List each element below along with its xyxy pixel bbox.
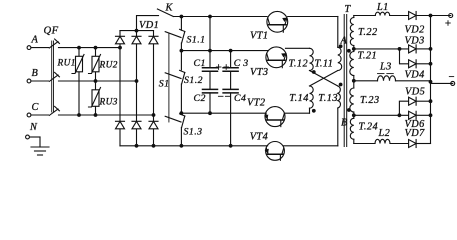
svg-text:RU2: RU2	[99, 61, 118, 71]
svg-text:T.14: T.14	[289, 93, 309, 104]
center tap wire with L3	[354, 80, 378, 82]
svg-text:T.11: T.11	[315, 58, 334, 69]
VD5 branch wire	[399, 101, 408, 115]
transistor VT3	[266, 47, 287, 68]
svg-text:VD4: VD4	[405, 70, 425, 81]
plus sign C1	[216, 65, 221, 70]
minus sign output	[449, 76, 453, 78]
capacitor C2	[203, 71, 218, 113]
svg-text:C1: C1	[194, 58, 206, 69]
polarity dot T.13	[339, 83, 343, 87]
bridge column 1 wire	[119, 31, 121, 146]
bridge column 2 wire	[136, 31, 138, 146]
inductor L2	[375, 139, 390, 143]
svg-text:C2: C2	[194, 93, 206, 104]
capacitor C1	[203, 17, 218, 72]
transistor VT2	[264, 107, 285, 127]
riser to node A	[337, 17, 339, 48]
transformer winding T.22	[350, 18, 353, 46]
right collector bus	[430, 16, 432, 144]
bridge diode top 2	[132, 36, 141, 44]
svg-text:N: N	[29, 122, 38, 133]
L3 core dashes	[378, 73, 394, 75]
transformer winding T.11	[338, 47, 342, 70]
VD4 branch wire	[400, 49, 409, 64]
svg-text:C 3: C 3	[234, 58, 249, 69]
VT4 wire right	[284, 145, 338, 147]
svg-text:S1.3: S1.3	[184, 127, 203, 138]
transformer winding T.14	[310, 86, 314, 108]
terminal N	[26, 135, 40, 147]
transistor VT4	[265, 142, 285, 161]
diode VD5	[409, 97, 431, 105]
polarity dot T.11	[339, 44, 343, 48]
diode VD6	[409, 111, 431, 119]
bottom dc bus	[120, 145, 268, 147]
bridge junction dots	[118, 29, 155, 148]
plus output terminal	[449, 14, 453, 18]
svg-text:L1: L1	[376, 2, 389, 13]
T.21 to center tap lead	[353, 76, 355, 81]
transistor VT1	[267, 11, 288, 32]
polarity dot T.12	[312, 70, 316, 74]
transformer winding T.24	[350, 118, 353, 139]
svg-text:RU3: RU3	[99, 98, 118, 108]
tap wire T.23/T.24	[354, 114, 409, 116]
tap wire T.22/T.21	[354, 48, 409, 50]
transformer winding T.21	[350, 52, 354, 76]
svg-text:C: C	[32, 102, 39, 113]
transformer winding T.12	[310, 48, 314, 70]
bridge column 3 wire	[153, 31, 155, 146]
svg-text:VT2: VT2	[247, 98, 266, 109]
terminal B	[27, 79, 48, 83]
svg-text:T.12: T.12	[289, 58, 309, 69]
S1 linkage bar	[168, 33, 170, 122]
inductor L1	[375, 12, 389, 15]
VT3 wire right to T.12	[286, 47, 310, 49]
minus sign C4	[225, 95, 230, 97]
breaker QF linkage	[52, 41, 54, 112]
top rail wire	[173, 16, 267, 18]
bridge diode top 3	[149, 36, 158, 44]
terminal A	[27, 46, 48, 50]
switch S1.1	[165, 17, 185, 70]
svg-text:VD1: VD1	[139, 20, 159, 31]
switch S1.3	[165, 114, 185, 146]
top output wire	[354, 15, 376, 17]
bus junction dots	[352, 14, 433, 118]
svg-text:RU1: RU1	[57, 59, 76, 69]
svg-text:T.21: T.21	[358, 51, 378, 62]
secondary polarity dots	[347, 49, 351, 112]
T.22 top lead	[353, 16, 355, 18]
minus output terminal	[451, 81, 455, 85]
switch K	[157, 9, 173, 17]
svg-text:VD3: VD3	[405, 36, 425, 47]
svg-text:VD2: VD2	[405, 25, 425, 36]
bridge diode bottom 1	[116, 121, 125, 129]
T.24 leads	[353, 115, 355, 143]
svg-text:VD5: VD5	[405, 87, 425, 98]
svg-text:VT4: VT4	[250, 132, 269, 143]
switch S1.2	[165, 70, 185, 113]
T.22-T.21 link	[353, 46, 355, 52]
diode VD3	[409, 45, 431, 53]
svg-text:L3: L3	[379, 62, 392, 73]
varistor RU3	[89, 81, 101, 115]
riser to node B	[337, 108, 339, 146]
svg-text:S1.2: S1.2	[184, 75, 203, 86]
breaker QF pole B	[49, 72, 136, 81]
transformer winding T.23	[350, 88, 354, 112]
svg-text:S1: S1	[159, 79, 170, 90]
diode VD4	[409, 60, 431, 68]
varistor RU2	[89, 48, 101, 81]
svg-text:A: A	[31, 35, 39, 46]
bridge riser to K	[137, 16, 159, 31]
VT1 collector wire right	[288, 16, 338, 18]
breaker QF pole C	[49, 106, 153, 115]
svg-text:S1.1: S1.1	[187, 35, 206, 46]
minus sign C2	[218, 95, 223, 97]
wire to VT2	[181, 112, 266, 114]
svg-text:B: B	[32, 68, 39, 79]
VT2 wire right to T.14	[285, 112, 310, 114]
svg-text:QF: QF	[44, 26, 59, 37]
capacitor C4	[223, 71, 238, 146]
bridge diode bottom 2	[132, 121, 141, 129]
svg-text:T.13: T.13	[318, 93, 338, 104]
svg-text:T.22: T.22	[358, 27, 378, 38]
transformer core	[344, 15, 347, 147]
svg-text:T.23: T.23	[360, 95, 380, 106]
svg-text:VT3: VT3	[250, 67, 269, 78]
svg-text:K: K	[165, 3, 174, 14]
plus sign C3	[224, 65, 229, 70]
ground	[31, 147, 49, 155]
bridge diode bottom 3	[149, 121, 158, 129]
plus sign output	[446, 21, 451, 26]
svg-text:T: T	[345, 4, 352, 15]
breaker QF pole A	[49, 39, 120, 48]
svg-text:L2: L2	[378, 128, 391, 139]
dc plus wire after S1.1	[181, 50, 267, 52]
terminal C	[27, 113, 48, 117]
capacitor C3	[223, 51, 238, 72]
T.14 bottom lead	[309, 108, 311, 113]
top rail dots	[180, 15, 212, 19]
T.23 leads	[353, 81, 355, 88]
bridge top rail	[120, 30, 154, 32]
diode VD2	[409, 12, 451, 20]
bridge diode top 1	[116, 36, 125, 44]
primary cross wires	[310, 71, 338, 87]
varistor RU1	[72, 48, 84, 115]
junction dots RU network	[77, 46, 97, 117]
svg-text:VT1: VT1	[250, 31, 269, 42]
inductor L3	[378, 76, 396, 81]
svg-text:VD7: VD7	[405, 128, 426, 139]
svg-text:C4: C4	[234, 93, 246, 104]
transformer winding T.13	[338, 86, 341, 108]
svg-text:T.24: T.24	[359, 122, 379, 133]
polarity dot T.14	[312, 109, 316, 113]
bottom output wire with L2	[354, 143, 375, 145]
diode VD7	[409, 140, 431, 148]
